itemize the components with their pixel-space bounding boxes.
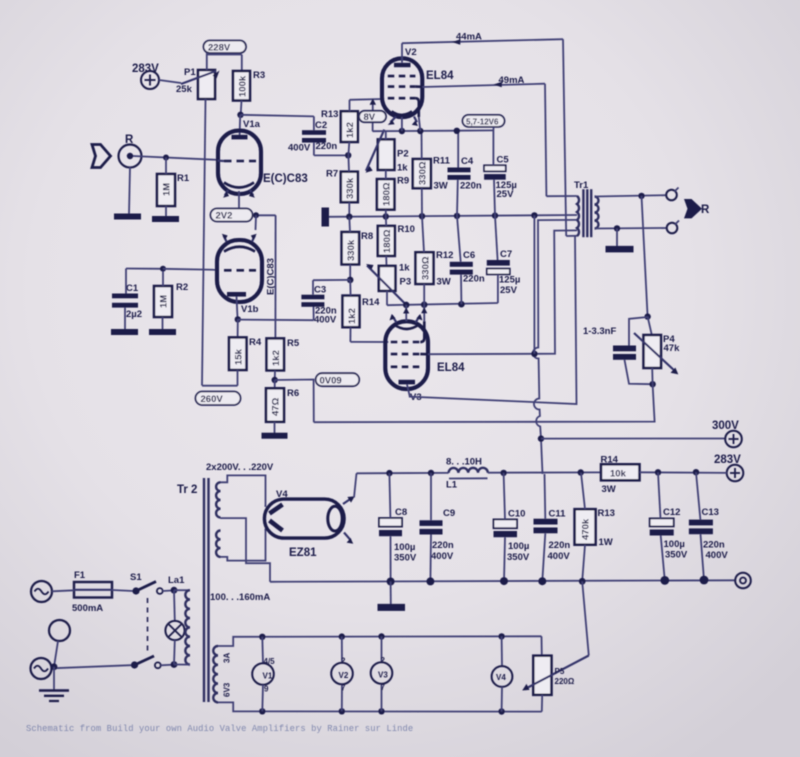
svg-text:5,7-12V6: 5,7-12V6 xyxy=(466,118,499,127)
resistor R13 1k2 xyxy=(341,111,358,142)
resistor R1 xyxy=(157,174,175,206)
svg-text:V1a: V1a xyxy=(243,119,261,130)
svg-text:R13: R13 xyxy=(598,508,615,519)
svg-text:8V: 8V xyxy=(364,112,376,123)
wire HV bottom to anode 2 xyxy=(221,530,266,561)
wire jack to grid line xyxy=(133,156,217,160)
main ground rail y=216 xyxy=(329,215,577,217)
ground bar under C1 xyxy=(111,329,138,335)
resistor R6 xyxy=(274,380,276,388)
svg-text:P3: P3 xyxy=(400,277,412,288)
oval label 5,7-12V6 xyxy=(463,115,505,127)
Tr2 HV winding xyxy=(216,482,220,517)
wire jack stem xyxy=(129,167,130,214)
svg-text:330Ω: 330Ω xyxy=(421,256,432,280)
neutral terminal circle xyxy=(49,620,70,641)
B+ wire from Tr1 with hops xyxy=(533,220,577,474)
svg-text:C3: C3 xyxy=(314,285,326,296)
svg-text:1k: 1k xyxy=(397,163,408,174)
ground bar under R6 xyxy=(262,433,288,439)
input arrow symbol xyxy=(92,145,111,168)
wire 283V to P1 wiper xyxy=(159,80,181,83)
resistor R8 330k xyxy=(342,232,360,264)
svg-text:7: 7 xyxy=(381,683,386,692)
resistor R14 1k2 xyxy=(343,296,360,328)
svg-text:1k2: 1k2 xyxy=(345,122,356,138)
svg-text:C8: C8 xyxy=(395,507,407,518)
chassis bar mid-left xyxy=(322,208,330,227)
svg-text:F1: F1 xyxy=(74,570,86,581)
svg-text:R9: R9 xyxy=(397,176,409,187)
svg-text:220n: 220n xyxy=(703,540,725,551)
wire R13 to P5 wiper xyxy=(582,581,589,655)
output jack bottom xyxy=(667,223,678,234)
svg-text:400V: 400V xyxy=(431,551,454,562)
resistor R4 xyxy=(229,337,247,370)
svg-text:220n: 220n xyxy=(549,540,571,551)
svg-text:350V: 350V xyxy=(394,553,417,564)
svg-text:2x200V. . .220V: 2x200V. . .220V xyxy=(206,462,274,473)
svg-text:C11: C11 xyxy=(549,509,567,520)
svg-text:350V: 350V xyxy=(665,550,688,561)
V4 heater arrow xyxy=(344,533,351,541)
svg-text:V4: V4 xyxy=(496,673,506,682)
main ground symbol xyxy=(390,582,392,605)
svg-text:100. . .160mA: 100. . .160mA xyxy=(210,592,270,603)
svg-text:1k: 1k xyxy=(399,263,410,274)
node R2 top xyxy=(160,266,166,272)
resistor R3 xyxy=(233,71,250,101)
resistor R2 xyxy=(154,286,172,317)
feedback line to 0V09 node xyxy=(314,384,655,422)
Tr1 secondary winding xyxy=(595,197,599,229)
pentode V3 EL84 (inverted) xyxy=(385,321,428,389)
wire 260V corner xyxy=(202,385,238,387)
svg-text:2V2: 2V2 xyxy=(216,211,233,222)
svg-text:EL84: EL84 xyxy=(437,362,465,374)
svg-text:220n: 220n xyxy=(463,274,485,285)
svg-text:2: 2 xyxy=(381,656,386,665)
svg-text:R8: R8 xyxy=(361,231,373,242)
49mA wire (screen V2) xyxy=(422,84,545,87)
ground under Tr1 secondary xyxy=(616,228,618,246)
svg-text:47Ω: 47Ω xyxy=(271,397,282,416)
svg-text:7: 7 xyxy=(341,684,346,693)
svg-text:350V: 350V xyxy=(507,552,530,563)
svg-text:V2: V2 xyxy=(405,47,417,58)
svg-text:V1b: V1b xyxy=(241,304,259,315)
V3 node line y=305 xyxy=(387,303,498,305)
svg-text:49mA: 49mA xyxy=(499,75,525,86)
svg-text:R2: R2 xyxy=(176,282,188,293)
Tr2 core xyxy=(203,478,205,702)
svg-text:R5: R5 xyxy=(287,338,300,349)
svg-text:C2: C2 xyxy=(315,120,327,131)
screen V3 wire to Tr1 xyxy=(428,230,577,354)
potentiometer P3 xyxy=(379,266,396,291)
svg-text:3W: 3W xyxy=(602,484,616,495)
svg-text:V3: V3 xyxy=(378,671,388,680)
ground bar under R1 xyxy=(152,216,179,222)
svg-text:9: 9 xyxy=(264,685,269,694)
svg-text:C1: C1 xyxy=(126,283,139,294)
svg-text:3W: 3W xyxy=(437,277,451,288)
resistor R11 330ohm 3W xyxy=(413,159,431,188)
output arrow R xyxy=(684,199,702,218)
svg-text:E(C)C83: E(C)C83 xyxy=(263,173,308,185)
vertical gnd rail to screen wire xyxy=(533,215,535,353)
svg-text:R4: R4 xyxy=(249,337,262,348)
V4 cathode arrow to rail xyxy=(343,499,351,505)
Tr2 heater winding 6V3 xyxy=(213,646,218,702)
secondary bottom wire to jack xyxy=(595,227,667,230)
svg-text:400V: 400V xyxy=(548,551,571,562)
node V1a plate xyxy=(237,112,243,118)
svg-text:100µ: 100µ xyxy=(394,542,415,553)
long wire P1 bottom down to 260V node xyxy=(202,99,206,386)
wire HV top to anode 1 xyxy=(221,475,266,506)
svg-text:100k: 100k xyxy=(238,75,249,97)
svg-text:125µ: 125µ xyxy=(499,275,520,286)
svg-text:1k2: 1k2 xyxy=(347,308,358,324)
svg-text:1M: 1M xyxy=(159,295,170,308)
svg-text:R7: R7 xyxy=(326,169,338,180)
svg-text:2µ2: 2µ2 xyxy=(126,309,142,320)
wire R4 top xyxy=(237,319,239,337)
svg-text:6V3: 6V3 xyxy=(223,682,232,697)
svg-text:R10: R10 xyxy=(398,224,415,235)
heater V1 xyxy=(261,637,264,663)
svg-text:1-3.3nF: 1-3.3nF xyxy=(583,326,616,337)
V2 node line y=131 xyxy=(373,130,459,133)
svg-text:R14: R14 xyxy=(362,297,380,308)
svg-text:4/5: 4/5 xyxy=(264,657,276,666)
resistor R10 180ohm xyxy=(378,226,395,256)
secondary top wire to jack xyxy=(595,195,667,196)
svg-text:10k: 10k xyxy=(610,469,627,480)
svg-text:C13: C13 xyxy=(702,507,719,518)
oval label 228V xyxy=(204,41,247,54)
svg-text:25k: 25k xyxy=(176,84,193,95)
svg-text:470k: 470k xyxy=(581,518,592,540)
svg-text:1M: 1M xyxy=(162,183,173,196)
svg-text:C5: C5 xyxy=(497,155,510,166)
wire 0V09 xyxy=(275,380,314,423)
oval label 0V09 xyxy=(316,373,360,386)
input jack J1 xyxy=(119,145,142,168)
AC source 1 xyxy=(31,581,52,602)
potentiometer P2 xyxy=(378,139,395,170)
svg-text:25V: 25V xyxy=(500,285,518,296)
node at R1 top xyxy=(163,155,169,161)
heater V3 xyxy=(381,637,383,663)
svg-text:R3: R3 xyxy=(253,70,265,81)
heater bus top rail xyxy=(218,636,542,646)
heater bus bottom rail xyxy=(218,702,542,711)
svg-text:220n: 220n xyxy=(432,540,454,551)
svg-text:100µ: 100µ xyxy=(508,541,529,552)
AC source 2 xyxy=(31,658,52,679)
PSU top rail xyxy=(357,472,449,474)
svg-text:8. . .10H: 8. . .10H xyxy=(446,457,482,468)
svg-text:R12: R12 xyxy=(436,250,453,261)
svg-text:3W: 3W xyxy=(434,181,448,192)
svg-text:400V: 400V xyxy=(706,550,729,561)
svg-text:400V: 400V xyxy=(314,315,337,326)
svg-text:Tr 2: Tr 2 xyxy=(177,484,197,496)
Tr1 core xyxy=(582,189,584,237)
svg-text:Schematic from Build your own: Schematic from Build your own Audio Valv… xyxy=(26,724,413,734)
svg-text:S1: S1 xyxy=(130,572,142,583)
ground bar under R2 xyxy=(149,329,176,335)
vertical V1a cathode chain to R5 xyxy=(274,215,276,338)
svg-text:1W: 1W xyxy=(599,537,613,548)
triode V1b (inverted) xyxy=(217,240,262,302)
PSU bottom 0V rail xyxy=(270,580,735,582)
44mA wire xyxy=(402,39,563,43)
svg-text:EL84: EL84 xyxy=(426,70,454,82)
svg-text:0V09: 0V09 xyxy=(320,376,342,387)
svg-text:2: 2 xyxy=(341,657,346,666)
Tr2 primary winding xyxy=(174,589,190,591)
resistor R7 330k xyxy=(341,172,358,203)
svg-text:100µ: 100µ xyxy=(664,539,685,550)
svg-text:500mA: 500mA xyxy=(72,603,103,614)
potentiometer P4 47k xyxy=(648,317,652,335)
svg-text:V2: V2 xyxy=(339,671,349,680)
wire HV centre tap to 0V rail xyxy=(221,518,271,582)
wire R13 top to V2 grid xyxy=(350,98,383,101)
wire C5 top corner from node line xyxy=(455,129,493,131)
svg-text:P5: P5 xyxy=(555,667,565,676)
svg-text:220Ω: 220Ω xyxy=(555,677,575,686)
svg-text:R11: R11 xyxy=(433,156,451,167)
svg-text:180Ω: 180Ω xyxy=(382,182,393,206)
node below R13 xyxy=(345,152,351,158)
svg-text:L1: L1 xyxy=(446,480,458,491)
resistor R13 470k xyxy=(575,509,596,545)
svg-text:V1: V1 xyxy=(263,672,273,681)
svg-text:25V: 25V xyxy=(497,189,515,200)
svg-text:C10: C10 xyxy=(508,509,525,520)
svg-text:C4: C4 xyxy=(461,156,474,167)
svg-text:1k2: 1k2 xyxy=(271,350,282,366)
svg-text:15k: 15k xyxy=(234,348,245,365)
svg-text:330Ω: 330Ω xyxy=(418,161,429,185)
V3 plate wire xyxy=(407,384,410,396)
svg-text:P1: P1 xyxy=(184,67,196,78)
svg-text:220n: 220n xyxy=(316,141,338,152)
svg-text:180Ω: 180Ω xyxy=(382,229,393,253)
oval label 260V xyxy=(196,392,241,406)
earth ground symbol xyxy=(53,667,55,691)
svg-text:C12: C12 xyxy=(663,507,680,518)
svg-text:47k: 47k xyxy=(664,343,681,354)
svg-text:R13: R13 xyxy=(321,109,338,120)
ground bar under jack xyxy=(114,214,141,220)
potentiometer P5 220ohm xyxy=(541,636,543,655)
8V arrow and oval xyxy=(372,100,374,131)
wire plate node to C2 xyxy=(241,115,314,117)
wires 228V oval to P1 and R3 xyxy=(206,53,208,70)
cathode wire V1a down xyxy=(238,191,240,215)
svg-text:La1: La1 xyxy=(168,575,185,586)
svg-text:C7: C7 xyxy=(500,249,512,260)
output jack top xyxy=(666,190,677,201)
svg-text:P2: P2 xyxy=(397,149,409,160)
svg-text:EZ81: EZ81 xyxy=(289,547,317,559)
svg-text:400V: 400V xyxy=(288,143,311,154)
svg-text:C6: C6 xyxy=(463,250,475,261)
svg-text:330k: 330k xyxy=(346,239,357,261)
svg-text:R: R xyxy=(701,204,710,216)
svg-text:220n: 220n xyxy=(460,181,482,192)
heater V2 xyxy=(341,637,343,663)
svg-text:330k: 330k xyxy=(345,177,356,199)
svg-text:R6: R6 xyxy=(287,388,299,399)
terminal 0 xyxy=(735,573,751,589)
resistor R5 xyxy=(267,338,285,370)
svg-text:228V: 228V xyxy=(208,43,231,54)
svg-text:R1: R1 xyxy=(177,173,190,184)
plate wire V1b xyxy=(237,297,238,320)
heater V4 xyxy=(501,636,503,666)
svg-text:260V: 260V xyxy=(201,394,224,405)
300V feed wire xyxy=(541,438,725,440)
resistor R12 330ohm 3W xyxy=(416,252,434,284)
oval label 2V2 xyxy=(211,209,253,222)
svg-text:3A: 3A xyxy=(223,653,232,663)
feedback tap wire down to P4 xyxy=(642,196,648,317)
wire grid V1b xyxy=(163,269,217,270)
potentiometer P1 xyxy=(198,70,215,99)
svg-text:C9: C9 xyxy=(443,508,455,519)
Tr1 primary winding xyxy=(577,196,579,236)
resistor R9 180ohm xyxy=(377,179,395,210)
